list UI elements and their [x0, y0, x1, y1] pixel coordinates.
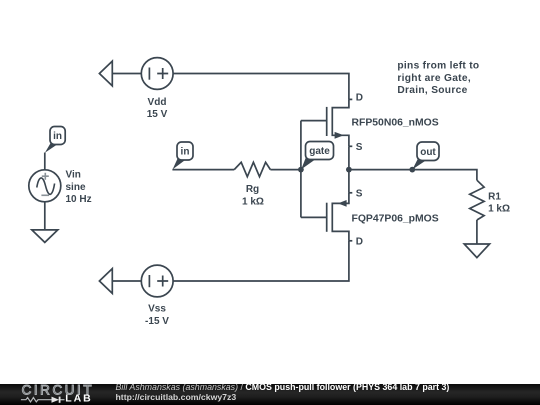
svg-text:Drain, Source: Drain, Source — [397, 85, 467, 96]
ground (R1) — [464, 244, 489, 258]
wire in flag to Vin — [44, 153, 46, 170]
ground (Vin) — [32, 230, 58, 243]
resistor Rg — [234, 162, 270, 176]
CircuitLab logo glyph resistor-diode — [21, 397, 65, 403]
svg-text:in: in — [53, 131, 62, 142]
svg-text:LAB: LAB — [65, 393, 92, 405]
svg-text:gate: gate — [309, 146, 330, 157]
junction out flag attach — [409, 167, 415, 173]
svg-text:S: S — [356, 142, 363, 153]
svg-text:pins from left to: pins from left to — [397, 61, 479, 72]
wire Vss source to arrow — [112, 280, 141, 282]
svg-text:R1: R1 — [488, 192, 501, 203]
wire Q2 drain to Vss — [173, 241, 349, 281]
pin tick Q2 drain — [349, 240, 352, 242]
transistor Q1 RFP50N06 nMOS — [327, 99, 349, 146]
wire Q2 gate lead — [301, 216, 327, 218]
svg-text:1 kΩ: 1 kΩ — [488, 204, 510, 215]
pin tick Q1 source — [349, 145, 352, 147]
wire Vin to ground — [44, 202, 46, 230]
pin tick Q1 drain — [349, 98, 352, 100]
voltage source Vin sine — [29, 170, 61, 202]
svg-text:Rg: Rg — [246, 184, 259, 195]
svg-text:D: D — [356, 236, 363, 247]
svg-text:right are Gate,: right are Gate, — [397, 73, 471, 84]
svg-text:in: in — [181, 147, 190, 158]
svg-text:http://circuitlab.com/ckwy7z3: http://circuitlab.com/ckwy7z3 — [116, 392, 237, 402]
wire gate vertical — [300, 121, 302, 218]
svg-text:sine: sine — [66, 182, 86, 193]
wire out node to R1 — [349, 170, 477, 181]
junction out node at sources — [346, 167, 352, 173]
pin tick Q2 source — [349, 192, 352, 194]
wire arrow to Vdd source — [112, 73, 141, 75]
net flag out — [413, 142, 440, 169]
junction gate node — [298, 167, 304, 173]
svg-text:Bill Ashmanskas (ashmanskas) /: Bill Ashmanskas (ashmanskas) / CMOS push… — [116, 384, 450, 392]
wire Rg to gate node — [270, 169, 301, 171]
wire R1 to ground — [476, 220, 478, 244]
svg-text:FQP47P06_pMOS: FQP47P06_pMOS — [352, 213, 439, 224]
wire out node to Q2 source — [348, 170, 350, 193]
svg-text:Vdd: Vdd — [148, 97, 167, 108]
voltage source V2 Vss — [141, 265, 173, 297]
svg-text:out: out — [420, 147, 436, 158]
svg-text:10 Hz: 10 Hz — [66, 194, 92, 205]
arrow terminal Vss — [99, 269, 112, 294]
wire Q1 source to out node — [348, 146, 350, 169]
footer banner — [0, 384, 540, 405]
svg-text:1 kΩ: 1 kΩ — [242, 197, 264, 208]
annotation pins from left to right are Gate, Drain, Source — [397, 61, 479, 97]
voltage source V1 Vdd — [141, 58, 173, 90]
arrow terminal Vdd — [99, 61, 112, 86]
net flag gate — [301, 142, 333, 170]
resistor R1 — [470, 180, 484, 220]
wire Q1 gate lead — [301, 120, 327, 122]
transistor Q2 FQP47P06 pMOS — [327, 193, 349, 241]
wire in to Rg — [172, 169, 234, 171]
net flag in (at Vin) — [45, 127, 65, 153]
svg-text:RFP50N06_nMOS: RFP50N06_nMOS — [352, 117, 439, 128]
svg-text:S: S — [356, 189, 363, 200]
wire Vdd to Q1 drain — [173, 74, 349, 100]
svg-text:15 V: 15 V — [147, 109, 168, 120]
svg-text:D: D — [356, 93, 363, 104]
svg-text:Vss: Vss — [148, 303, 166, 314]
svg-text:-15 V: -15 V — [145, 316, 169, 327]
svg-text:Vin: Vin — [66, 170, 81, 181]
net flag in (at Rg input) — [173, 142, 193, 169]
